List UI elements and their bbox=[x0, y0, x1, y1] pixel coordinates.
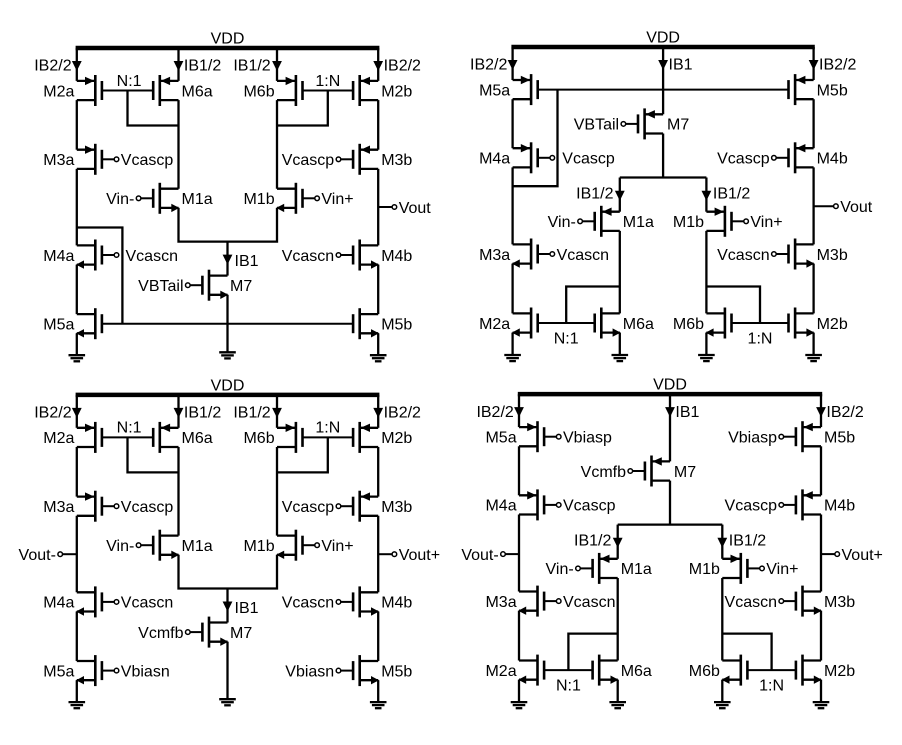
svg-text:1:N: 1:N bbox=[315, 73, 340, 90]
svg-text:M5b: M5b bbox=[381, 317, 412, 334]
svg-text:M6b: M6b bbox=[243, 83, 274, 100]
svg-text:M4b: M4b bbox=[817, 151, 848, 168]
svg-text:Vcascp: Vcascp bbox=[121, 499, 174, 516]
svg-text:M3b: M3b bbox=[381, 499, 412, 516]
svg-text:M1b: M1b bbox=[243, 191, 274, 208]
svg-text:Vcascp: Vcascp bbox=[717, 151, 770, 168]
svg-text:Vbiasp: Vbiasp bbox=[728, 430, 777, 447]
svg-text:N:1: N:1 bbox=[117, 420, 142, 437]
svg-text:Vcascn: Vcascn bbox=[282, 248, 334, 265]
svg-text:M5b: M5b bbox=[381, 663, 412, 680]
svg-text:Vin+: Vin+ bbox=[321, 538, 353, 555]
svg-text:M2a: M2a bbox=[43, 83, 74, 100]
svg-text:Vcascp: Vcascp bbox=[121, 152, 174, 169]
svg-text:M3a: M3a bbox=[479, 247, 510, 264]
svg-text:M4a: M4a bbox=[479, 151, 510, 168]
svg-text:M3a: M3a bbox=[43, 499, 74, 516]
svg-text:Vcascn: Vcascn bbox=[557, 247, 609, 264]
svg-text:Vcascp: Vcascp bbox=[563, 498, 616, 515]
svg-text:Vin+: Vin+ bbox=[766, 561, 798, 578]
svg-text:N:1: N:1 bbox=[554, 330, 579, 347]
svg-text:M4a: M4a bbox=[43, 595, 74, 612]
svg-text:M1b: M1b bbox=[243, 538, 274, 555]
svg-text:M6a: M6a bbox=[182, 430, 213, 447]
svg-text:VDD: VDD bbox=[653, 377, 687, 394]
svg-text:M1a: M1a bbox=[182, 538, 213, 555]
svg-text:M5a: M5a bbox=[485, 430, 516, 447]
svg-text:IB2/2: IB2/2 bbox=[819, 57, 856, 74]
svg-text:IB1/2: IB1/2 bbox=[713, 185, 750, 202]
svg-text:Vin-: Vin- bbox=[548, 214, 576, 231]
svg-text:IB1/2: IB1/2 bbox=[184, 405, 221, 422]
svg-text:M5a: M5a bbox=[43, 663, 74, 680]
svg-text:IB1/2: IB1/2 bbox=[233, 405, 270, 422]
svg-text:Vcascn: Vcascn bbox=[725, 594, 777, 611]
svg-text:M4b: M4b bbox=[824, 498, 855, 515]
svg-text:IB2/2: IB2/2 bbox=[826, 404, 863, 421]
svg-text:M6a: M6a bbox=[621, 663, 652, 680]
svg-text:M2a: M2a bbox=[485, 663, 516, 680]
svg-text:M3a: M3a bbox=[43, 152, 74, 169]
svg-text:Vcascn: Vcascn bbox=[126, 248, 178, 265]
svg-text:Vcmfb: Vcmfb bbox=[138, 625, 183, 642]
svg-text:IB1/2: IB1/2 bbox=[574, 532, 611, 549]
svg-text:Vbiasn: Vbiasn bbox=[121, 663, 170, 680]
svg-text:IB2/2: IB2/2 bbox=[470, 57, 507, 74]
svg-text:Vout+: Vout+ bbox=[842, 547, 883, 564]
svg-text:Vbiasp: Vbiasp bbox=[563, 430, 612, 447]
svg-text:M2b: M2b bbox=[381, 430, 412, 447]
svg-text:M6a: M6a bbox=[182, 83, 213, 100]
svg-text:IB2/2: IB2/2 bbox=[34, 405, 71, 422]
svg-text:M5a: M5a bbox=[479, 82, 510, 99]
svg-text:M6b: M6b bbox=[673, 316, 704, 333]
svg-text:IB1: IB1 bbox=[235, 600, 259, 617]
svg-text:M3b: M3b bbox=[824, 594, 855, 611]
svg-text:M3b: M3b bbox=[817, 247, 848, 264]
svg-text:IB1/2: IB1/2 bbox=[576, 185, 613, 202]
svg-text:Vcascn: Vcascn bbox=[563, 594, 615, 611]
svg-text:Vcascp: Vcascp bbox=[562, 151, 615, 168]
svg-text:1:N: 1:N bbox=[315, 420, 340, 437]
svg-text:Vcascp: Vcascp bbox=[282, 499, 335, 516]
svg-text:Vout: Vout bbox=[840, 199, 873, 216]
svg-text:VDD: VDD bbox=[211, 31, 245, 48]
svg-text:Vcascp: Vcascp bbox=[282, 152, 335, 169]
svg-text:IB1/2: IB1/2 bbox=[184, 58, 221, 75]
svg-text:M5b: M5b bbox=[824, 430, 855, 447]
svg-text:VBTail: VBTail bbox=[138, 278, 183, 295]
svg-text:M7: M7 bbox=[230, 625, 252, 642]
svg-text:Vcascn: Vcascn bbox=[282, 595, 334, 612]
svg-text:Vin-: Vin- bbox=[106, 538, 134, 555]
svg-text:Vin+: Vin+ bbox=[321, 191, 353, 208]
svg-text:M4a: M4a bbox=[485, 498, 516, 515]
svg-text:Vout: Vout bbox=[399, 200, 432, 217]
svg-text:Vin+: Vin+ bbox=[750, 214, 782, 231]
svg-text:Vin-: Vin- bbox=[546, 561, 574, 578]
svg-text:M5a: M5a bbox=[43, 317, 74, 334]
svg-text:IB1: IB1 bbox=[235, 253, 259, 270]
svg-text:1:N: 1:N bbox=[759, 677, 784, 694]
svg-text:Vout+: Vout+ bbox=[399, 547, 440, 564]
svg-text:IB1/2: IB1/2 bbox=[233, 58, 270, 75]
svg-text:M6b: M6b bbox=[689, 663, 720, 680]
svg-text:M2b: M2b bbox=[824, 663, 855, 680]
svg-text:M2b: M2b bbox=[381, 83, 412, 100]
svg-text:IB2/2: IB2/2 bbox=[384, 58, 421, 75]
svg-text:N:1: N:1 bbox=[556, 677, 581, 694]
svg-text:Vcmfb: Vcmfb bbox=[581, 464, 626, 481]
svg-text:N:1: N:1 bbox=[117, 73, 142, 90]
svg-text:1:N: 1:N bbox=[748, 330, 773, 347]
svg-text:M3a: M3a bbox=[485, 594, 516, 611]
svg-text:Vbiasn: Vbiasn bbox=[285, 663, 334, 680]
svg-text:M3b: M3b bbox=[381, 152, 412, 169]
svg-text:M2a: M2a bbox=[479, 316, 510, 333]
svg-text:M2b: M2b bbox=[817, 316, 848, 333]
svg-text:M7: M7 bbox=[667, 117, 689, 134]
svg-text:Vcascn: Vcascn bbox=[121, 595, 173, 612]
svg-text:Vout-: Vout- bbox=[19, 547, 56, 564]
svg-text:IB1: IB1 bbox=[669, 57, 693, 74]
svg-text:M4a: M4a bbox=[43, 248, 74, 265]
svg-text:IB2/2: IB2/2 bbox=[384, 405, 421, 422]
svg-text:VDD: VDD bbox=[211, 377, 245, 394]
svg-text:M1a: M1a bbox=[182, 191, 213, 208]
svg-text:IB2/2: IB2/2 bbox=[34, 58, 71, 75]
svg-text:M4b: M4b bbox=[381, 595, 412, 612]
svg-text:M1a: M1a bbox=[623, 214, 654, 231]
svg-text:M7: M7 bbox=[674, 464, 696, 481]
svg-text:Vout-: Vout- bbox=[461, 547, 498, 564]
svg-text:M6a: M6a bbox=[623, 316, 654, 333]
svg-text:IB1: IB1 bbox=[675, 404, 699, 421]
svg-text:M4b: M4b bbox=[381, 248, 412, 265]
svg-text:Vin-: Vin- bbox=[106, 191, 134, 208]
svg-text:M7: M7 bbox=[230, 278, 252, 295]
svg-text:M1b: M1b bbox=[689, 561, 720, 578]
svg-text:Vcascp: Vcascp bbox=[725, 498, 778, 515]
svg-text:VDD: VDD bbox=[646, 30, 680, 47]
svg-text:M1a: M1a bbox=[621, 561, 652, 578]
svg-text:M2a: M2a bbox=[43, 430, 74, 447]
svg-text:Vcascn: Vcascn bbox=[717, 247, 769, 264]
svg-text:M1b: M1b bbox=[673, 214, 704, 231]
svg-text:VBTail: VBTail bbox=[574, 117, 619, 134]
svg-text:M5b: M5b bbox=[817, 82, 848, 99]
svg-text:M6b: M6b bbox=[243, 430, 274, 447]
svg-text:IB1/2: IB1/2 bbox=[729, 532, 766, 549]
svg-text:IB2/2: IB2/2 bbox=[476, 404, 513, 421]
